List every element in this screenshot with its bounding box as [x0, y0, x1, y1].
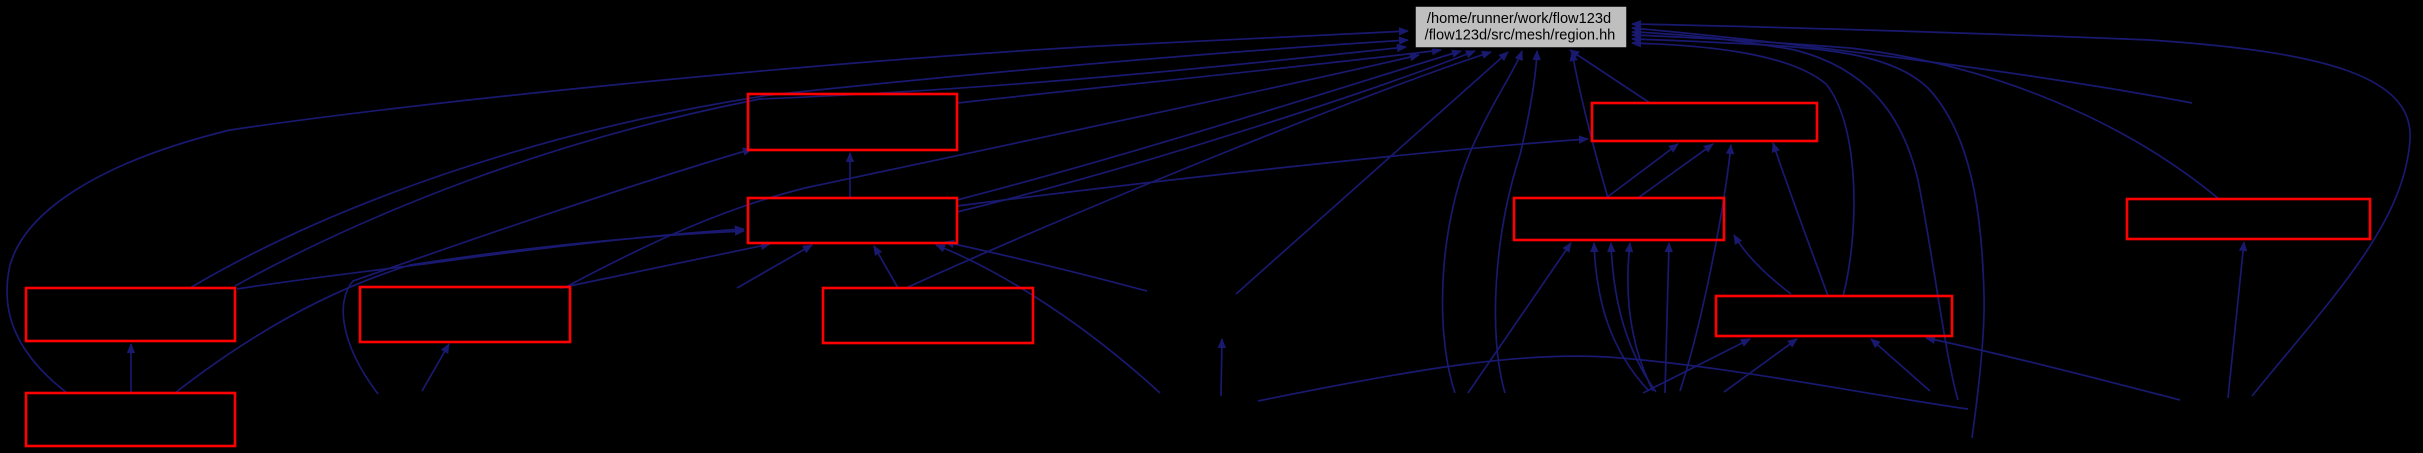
- svg-text:/home/runner/work/flow123d: /home/runner/work/flow123d: [1427, 11, 1611, 27]
- svg-text:/flow123d/src/mesh/region.hh: /flow123d/src/mesh/region.hh: [1425, 28, 1616, 44]
